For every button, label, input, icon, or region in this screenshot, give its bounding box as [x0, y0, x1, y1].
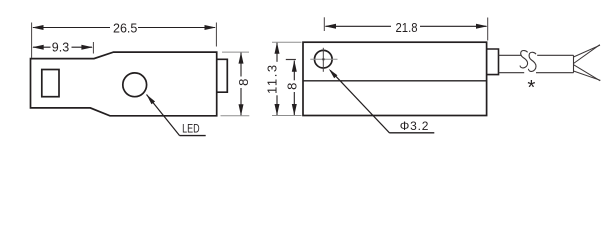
extension line bottom (side view)	[272, 115, 302, 117]
extension line bottom for dim 8 (top view)	[221, 115, 250, 117]
cable left segment top	[499, 54, 522, 56]
extension line left of dim 21.8	[323, 17, 325, 31]
extension line top for dim 8 (top view)	[222, 51, 249, 53]
svg-text:8: 8	[285, 83, 300, 90]
dim 8 (side view lower height)	[285, 60, 300, 115]
extension tick at hole centerline (side view)	[286, 59, 296, 61]
extension line right of dim 26.5	[215, 23, 217, 47]
dim 11.3 (side view overall height)	[265, 42, 280, 115]
leader arrow to LED	[147, 95, 206, 136]
cable boot nub (side view)	[487, 49, 499, 75]
body outline (top view)	[31, 52, 217, 116]
cable right segment bottom	[536, 72, 574, 74]
dim 26.5	[32, 22, 216, 36]
wire upper	[574, 45, 601, 64]
mounting slot	[42, 70, 59, 97]
break squiggle 2	[528, 52, 536, 71]
break squiggle 1	[520, 51, 528, 68]
svg-text:9.3: 9.3	[52, 41, 69, 55]
dim 21.8	[325, 21, 488, 35]
svg-text:Φ3.2: Φ3.2	[400, 119, 429, 133]
svg-text:*: *	[527, 76, 535, 99]
cable end edge	[573, 55, 575, 72]
extension tick right of dim 9.3	[92, 42, 94, 54]
svg-text:11.3: 11.3	[265, 63, 280, 94]
connector nub (top view)	[217, 59, 228, 92]
cable left segment bottom	[499, 72, 525, 74]
svg-text:26.5: 26.5	[113, 22, 137, 36]
svg-text:8: 8	[236, 79, 251, 86]
extension line left of dim 26.5	[31, 23, 33, 59]
extension line right of dim 21.8	[487, 18, 489, 41]
wire lower	[574, 65, 601, 81]
leader arrow to hole	[329, 69, 435, 133]
hole crosshair horizontal	[310, 58, 337, 60]
hole center mark	[322, 58, 324, 60]
svg-text:21.8: 21.8	[396, 21, 418, 35]
extension line top (side view)	[272, 41, 302, 43]
cable right segment top	[537, 54, 573, 56]
body outline (side view)	[303, 42, 487, 115]
internal parting line (side view)	[303, 80, 487, 82]
LED circle	[123, 73, 147, 97]
hole circle (phi 3.2)	[315, 50, 333, 68]
hole crosshair vertical	[322, 48, 324, 72]
svg-text:LED: LED	[182, 122, 200, 136]
dim 8 (top view height)	[236, 52, 251, 116]
dim 9.3	[32, 41, 93, 55]
